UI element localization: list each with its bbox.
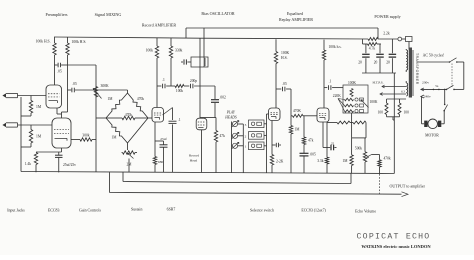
label: 100k (146, 49, 154, 53)
motor M brushes (424, 121, 441, 127)
svg-text:AC 50 cycles!: AC 50 cycles! (423, 53, 445, 57)
wire: mains top tap (417, 61, 450, 63)
wire: echo volume top (352, 123, 366, 138)
svg-text:20: 20 (374, 61, 378, 65)
coil box PH1 (249, 142, 265, 150)
jack J2 (input 2) (2, 123, 17, 127)
wire: PSU down-right (393, 73, 395, 174)
svg-text:330k: 330k (175, 49, 183, 53)
svg-text:TRANSFORMER: TRANSFORMER (415, 53, 419, 85)
title: COPICAT ECHO (357, 233, 431, 242)
transformer T2 primary winding lower (406, 83, 408, 96)
capacitor (V3a bypass) (272, 143, 281, 147)
label: 1.4k (25, 162, 31, 166)
resistor eq row2 (345, 104, 364, 107)
switch S1a (mains) (449, 58, 464, 63)
label: 100K H.S. (281, 51, 290, 60)
resistor 470k (output series) (378, 155, 381, 174)
tube V3b ECC83 (317, 108, 329, 122)
svg-text:ECC83 (12ax7): ECC83 (12ax7) (301, 209, 326, 213)
svg-text:6.3: 6.3 (401, 90, 405, 94)
capacitor .005 (eq) (300, 153, 309, 173)
label: OUTPUT to amplifier (390, 183, 426, 188)
svg-text:1M: 1M (343, 159, 349, 163)
svg-text:.05: .05 (57, 70, 62, 74)
svg-text:Signal MIXING: Signal MIXING (95, 12, 122, 17)
resistor 2-2K (V3a cathode) (270, 121, 273, 173)
svg-text:100K: 100K (281, 51, 290, 55)
label: 100k h.s. (329, 45, 342, 49)
label: Bias OSCILLATOR (201, 11, 235, 16)
label: Record AMPLIFIER (142, 23, 176, 28)
svg-text:25uf/25v: 25uf/25v (63, 163, 76, 167)
label: 100 (404, 111, 410, 115)
label: .1 (162, 78, 165, 82)
svg-text:.005: .005 (310, 153, 316, 157)
resistor 470k (mix upper-right) (128, 93, 149, 118)
wire: heater tap 1 (382, 85, 406, 88)
resistor eq row3 (345, 109, 364, 112)
label: 470k (137, 97, 144, 101)
wire: V2 grid diag (163, 108, 173, 116)
resistor 100K (eq top) (350, 89, 353, 97)
potentiometer 100K wiper (361, 100, 369, 108)
label: 240v (424, 95, 431, 99)
svg-text:4.7k: 4.7k (369, 47, 376, 51)
label: 100K (370, 100, 378, 104)
record head RH (196, 118, 207, 130)
resistor 1M (input 1) (21, 96, 33, 117)
resistor 1M (echo line 1) (327, 121, 350, 124)
label: 470k (125, 113, 132, 117)
label: 100k (176, 89, 183, 93)
wire: record head bottom (201, 130, 203, 173)
svg-text:WATKINS electric music LONDON: WATKINS electric music LONDON (361, 244, 431, 249)
resistor 300k (gain ch2) (71, 138, 96, 141)
resistor 100 (heater 1) (385, 99, 388, 117)
label: 100 (378, 111, 384, 115)
node: mixer diamond top (127, 90, 129, 93)
label: 1M (112, 136, 118, 140)
resistor 1M (mix upper-left) (106, 93, 128, 118)
label: 2-2K (276, 160, 284, 164)
transformer T2 primary winding (406, 50, 408, 70)
svg-text:470k: 470k (384, 157, 391, 161)
label: 680 (158, 160, 164, 164)
label: 20 (358, 61, 362, 65)
resistor 100 (heater 2) (398, 99, 401, 117)
resistor 3.3k (V3b cathode) (323, 122, 329, 173)
capacitor 20uf (filter 2) (376, 44, 384, 73)
wire: heads left common (231, 122, 234, 173)
label: 25 (331, 142, 335, 146)
label: 2.2k (383, 32, 390, 36)
label: POWER supply (374, 14, 401, 19)
svg-text:H.T.P.S.: H.T.P.S. (372, 80, 383, 84)
resistor 1M (grid leak) (289, 116, 292, 173)
svg-text:1M: 1M (36, 105, 42, 109)
capacitor 200p (184, 84, 215, 89)
wire: selector to V3a grid (264, 114, 269, 173)
wire: mains mid tap (421, 88, 447, 91)
svg-text:100K: 100K (370, 100, 378, 104)
label: .05 (72, 82, 77, 86)
resistor 680 (V2 cathode) (153, 141, 156, 172)
label: 200p (190, 79, 197, 83)
svg-text:470k: 470k (125, 113, 132, 117)
svg-text:.002: .002 (220, 96, 226, 100)
wire: jack2 to V1b grid (18, 124, 53, 126)
svg-text:Selector switch: Selector switch (250, 209, 274, 213)
label: 3.3k (317, 159, 323, 163)
resistor .25M (echo line 2) (350, 121, 366, 138)
svg-text:100k: 100k (146, 49, 154, 53)
label: 220K (333, 94, 341, 98)
svg-text:.1: .1 (178, 118, 181, 122)
svg-text:Gain Controls: Gain Controls (79, 209, 101, 213)
resistor 330k (osc grid) (169, 38, 172, 86)
svg-text:Head: Head (190, 159, 198, 163)
label: PLAY HEADS (224, 111, 237, 120)
label: 6SR7 (V2) (167, 208, 176, 212)
capacitor 25 (V3b bypass) (327, 145, 337, 151)
wire: V1 cathode (36, 108, 62, 152)
svg-text:100k: 100k (176, 89, 183, 93)
svg-text:2: 2 (245, 135, 247, 139)
label: Signal MIXING (95, 12, 122, 17)
svg-text:Record AMPLIFIER: Record AMPLIFIER (142, 23, 176, 28)
svg-text:2M: 2M (127, 163, 133, 167)
svg-text:47k: 47k (308, 139, 314, 143)
tube V3a ECC83 (269, 108, 281, 121)
wire: output line (110, 172, 402, 194)
resistor 4.7k (smoothing 2) (363, 39, 382, 46)
capacitor 20uf (filter 3) (389, 39, 397, 73)
svg-text:500k: 500k (355, 147, 362, 151)
capacitor .002 (bias feed) (211, 86, 219, 118)
wire: transformer left stubs (405, 49, 407, 83)
label: Sustain (131, 208, 143, 212)
wire: heater bottom join (387, 117, 400, 120)
svg-text:OUTPUT to amplifier: OUTPUT to amplifier (390, 183, 426, 188)
resistor 470K (grid stopper) (291, 114, 317, 117)
label: 2 (245, 135, 247, 139)
wire: mix right to V2 grid (148, 117, 152, 119)
wire: eq box output (351, 113, 353, 123)
svg-text:2-2K: 2-2K (276, 160, 284, 164)
svg-text:3.3k: 3.3k (317, 159, 323, 163)
label: 1M (295, 128, 301, 132)
capacitor 20uf (filter 1) (362, 44, 370, 73)
transformer T2 secondary winding (413, 50, 419, 96)
svg-text:1M: 1M (108, 97, 114, 101)
label: Equalised (287, 11, 303, 16)
label: MOTOR (425, 134, 439, 138)
label: .05 (57, 70, 62, 74)
label: 25uf/25v (63, 163, 76, 167)
svg-text:300K: 300K (101, 84, 110, 88)
label: 20 (386, 61, 390, 65)
oscillator transformer T1 (191, 57, 208, 67)
title: WATKINS electric music LONDON (361, 244, 431, 249)
svg-text:COPICAT ECHO: COPICAT ECHO (357, 233, 431, 242)
capacitor .1 (feedback) (169, 108, 177, 173)
resistor 1.4k (cathode) (34, 153, 37, 173)
potentiometer 500k (Echo Volume) (363, 138, 379, 173)
svg-text:1M: 1M (295, 128, 301, 132)
label: 5a (fuse) (435, 84, 439, 88)
svg-text:ECC83: ECC83 (48, 209, 60, 213)
wire: heater tap 2 (380, 93, 406, 96)
svg-text:6SR7: 6SR7 (167, 208, 176, 212)
label: H.T.P.S. (372, 80, 383, 84)
transformer T2 core (409, 48, 412, 98)
label: 1M (36, 105, 42, 109)
capacitor 25uf (V2 bypass) (160, 141, 168, 172)
svg-text:PLAY: PLAY (226, 111, 236, 115)
svg-text:100: 100 (404, 111, 410, 115)
resistor 100k H.S. (V1b anode) (66, 37, 69, 112)
wire: feedback line (123, 172, 351, 183)
svg-text:470K: 470K (293, 109, 301, 113)
label: Preamplifiers (45, 12, 67, 17)
wire: jack ground (20, 97, 22, 172)
tube V2 6SR7 (152, 108, 164, 123)
label: .005 (310, 153, 316, 157)
switch S2 (motor) (443, 89, 447, 112)
coil box PH2 (249, 132, 265, 140)
capacitor .05 (ch1 coupling) (55, 63, 68, 68)
resistor 100K H.S. (V3a anode) (274, 39, 277, 108)
motor M (428, 119, 438, 129)
svg-text:100k H.S.: 100k H.S. (36, 39, 51, 43)
label: 500k (355, 147, 362, 151)
svg-text:Replay AMPLIFIER: Replay AMPLIFIER (279, 17, 313, 22)
resistor 1M (input 2) (21, 125, 33, 147)
wire: heads mid common (238, 124, 244, 173)
play head PH2 (231, 132, 238, 139)
potentiometer 300K (gain ch1) (93, 87, 101, 99)
capacitor .1 (record coupling) (163, 84, 175, 89)
svg-text:47k: 47k (220, 134, 226, 138)
wire: mix left to bus (96, 117, 106, 119)
label: Replay AMPLIFIER (279, 17, 313, 22)
jack J1 (input 1) (2, 93, 17, 97)
switch S1b (mains) (446, 85, 464, 90)
label: 300K (101, 84, 110, 88)
potentiometer 2M (Sustain) (122, 143, 138, 172)
label: Record Head (189, 154, 199, 163)
label: 1M (108, 97, 114, 101)
label: .1 (329, 80, 332, 84)
label: 330k (175, 49, 183, 53)
svg-text:1.4k: 1.4k (25, 162, 31, 166)
capacitor .05 (replay coupling) (276, 87, 291, 92)
label: 1M (36, 135, 42, 139)
wire: filter ground (362, 72, 396, 74)
wire: jack1 to V1a grid (18, 95, 47, 97)
svg-text:1M: 1M (112, 136, 118, 140)
resistor 1M (echo shunt) (350, 138, 353, 173)
wire: motor to switch (441, 111, 444, 124)
label: 230v (422, 80, 429, 84)
tube V1b ECC83 (52, 118, 71, 148)
resistor 47k (eq) (302, 116, 305, 153)
label: ECC83 (V1) (48, 209, 60, 213)
resistor 100k h.s. (V3b anode) (322, 40, 325, 108)
label: ECC83 (12ax7) (V3) (301, 209, 326, 213)
label: 100K (348, 81, 356, 85)
resistor 100k (V2 anode) (155, 38, 158, 108)
wire: mix lower-right edge (128, 118, 149, 143)
svg-text:.05: .05 (72, 82, 77, 86)
resistor 470k (mix middle) (106, 116, 148, 119)
wire: mains right vertical (463, 62, 465, 89)
wire: oscillator column (199, 38, 201, 118)
svg-text:2.2k: 2.2k (383, 32, 390, 36)
label: Input Jacks (7, 209, 25, 213)
svg-text:.05: .05 (282, 82, 287, 86)
wire: record line (157, 85, 161, 87)
svg-text:680: 680 (158, 160, 164, 164)
capacitor .05 (ch2 coupling) (68, 88, 128, 93)
wire: HT upper rail (186, 28, 378, 57)
wire: head line (200, 117, 216, 119)
label: Selector switch (250, 209, 274, 213)
label: 25uf (160, 137, 167, 141)
svg-text:HEADS: HEADS (224, 115, 237, 119)
svg-text:100: 100 (378, 111, 384, 115)
wire: V2 cathode (155, 122, 164, 141)
svg-text:H.S.: H.S. (281, 56, 288, 60)
svg-text:MOTOR: MOTOR (425, 134, 439, 138)
wire: heater top join (387, 98, 407, 100)
svg-text:100K: 100K (348, 81, 356, 85)
label: 4.7k (369, 47, 376, 51)
label: 1M (343, 159, 349, 163)
label: 1 (245, 145, 247, 149)
svg-text:20: 20 (358, 61, 362, 65)
label: AC 50 cycles! (423, 53, 445, 57)
wire: HT main B+ rail (54, 37, 368, 39)
label: 6.3 (401, 90, 405, 94)
resistor eq row1 (345, 98, 364, 101)
svg-text:240v: 240v (424, 95, 431, 99)
rectifier block (406, 37, 413, 50)
svg-text:5a: 5a (435, 84, 439, 88)
resistor 2.2k (smoothing) (368, 38, 398, 41)
svg-text:470k: 470k (137, 97, 144, 101)
play head PH3 (231, 121, 238, 128)
resistor 47k (head shunt) (214, 118, 217, 173)
label: .1 (178, 118, 181, 122)
node: output arrowhead (402, 192, 409, 197)
equaliser box (343, 85, 368, 113)
label: Gain Controls (79, 209, 101, 213)
svg-text:25uf: 25uf (160, 137, 167, 141)
switch: eq selector fan (338, 99, 345, 112)
svg-text:Input Jacks: Input Jacks (7, 209, 25, 213)
resistor 1M (mix lower-left) (106, 118, 128, 143)
svg-text:3: 3 (245, 123, 247, 127)
svg-text:Bias OSCILLATOR: Bias OSCILLATOR (201, 11, 235, 16)
svg-text:220K: 220K (333, 94, 341, 98)
label: 47k (220, 134, 226, 138)
label: 2M (127, 163, 133, 167)
svg-text:1M: 1M (36, 135, 42, 139)
label: .05 (282, 82, 287, 86)
resistor 100k H.S. (V1a anode) (53, 37, 56, 85)
svg-text:.1: .1 (329, 80, 332, 84)
svg-text:230v: 230v (422, 80, 429, 84)
capacitor (osc tank) (181, 59, 191, 64)
svg-text:1: 1 (245, 145, 247, 149)
tube V1a ECC83 (46, 85, 62, 108)
capacitor .1 (to EQ) (324, 85, 343, 90)
svg-text:20: 20 (386, 61, 390, 65)
label: 3 (245, 123, 247, 127)
svg-text:200p: 200p (190, 79, 197, 83)
svg-text:Preamplifiers: Preamplifiers (45, 12, 67, 17)
resistor 100k (record series) (175, 85, 184, 88)
label: 20 (374, 61, 378, 65)
wire: plate tap to mix bus (68, 64, 97, 66)
svg-text:Record: Record (189, 154, 199, 158)
wire: 240v tap to motor (421, 95, 424, 124)
wire: ground bus (21, 172, 394, 174)
svg-text:POWER supply: POWER supply (374, 14, 401, 19)
svg-text:300k: 300k (82, 134, 89, 138)
label: 300k (82, 134, 89, 138)
svg-text:.1: .1 (162, 78, 165, 82)
wire: mix bus vertical (95, 65, 97, 172)
label: .002 (220, 96, 226, 100)
svg-text:100k h.s.: 100k h.s. (329, 45, 342, 49)
lamp/rectifier node (398, 37, 406, 41)
label: 47k (308, 139, 314, 143)
play head PH1 (231, 142, 238, 149)
wire: echo volume to output (dashed) (379, 174, 381, 194)
label: 100k H.S. (36, 39, 51, 43)
label: 470k (384, 157, 391, 161)
capacitor 25uf/25v (cathode bypass) (55, 152, 63, 172)
svg-text:25: 25 (331, 142, 335, 146)
wire: V1b plate (62, 112, 68, 118)
svg-text:Echo Volume: Echo Volume (355, 210, 376, 214)
coil box PH3 (249, 120, 265, 128)
switch link (dashed) (451, 64, 453, 88)
svg-text:Sustain: Sustain (131, 208, 143, 212)
label: 100k H.S. (72, 40, 87, 44)
label: 470K (293, 109, 301, 113)
label: Echo Volume (355, 210, 376, 214)
wire: coupling drop (290, 89, 292, 116)
svg-text:100k H.S.: 100k H.S. (72, 40, 87, 44)
svg-text:Equalised: Equalised (287, 11, 303, 16)
